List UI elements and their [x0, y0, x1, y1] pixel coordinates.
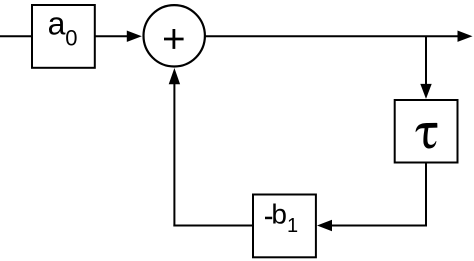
svg-text:0: 0: [65, 26, 77, 51]
wire b1 to left corner: [173, 225, 253, 227]
label a0: [48, 5, 78, 50]
arrowhead into b1: [317, 220, 332, 231]
wire bottom to b1: [331, 225, 427, 227]
arrowhead into tau: [420, 84, 431, 99]
arrowhead into summer: [127, 31, 142, 42]
plus sign: [164, 29, 184, 49]
label -b1: [265, 199, 298, 237]
wire tau down: [425, 163, 427, 225]
summing junction: [144, 5, 205, 66]
wire a0 to summer: [95, 35, 128, 37]
arrowhead into summer bottom: [169, 68, 180, 84]
label tau: [416, 123, 438, 149]
arrowhead output right: [458, 31, 473, 42]
wire summer to output: [205, 35, 459, 37]
block b1: [253, 195, 316, 258]
svg-text:b: b: [271, 199, 287, 230]
svg-text:1: 1: [287, 215, 298, 237]
block a0: [32, 5, 95, 68]
svg-text:a: a: [48, 5, 66, 41]
wire input left: [0, 35, 33, 37]
wire feedback up: [173, 84, 175, 227]
wire branch down to tau: [425, 36, 427, 85]
block tau: [395, 100, 458, 163]
